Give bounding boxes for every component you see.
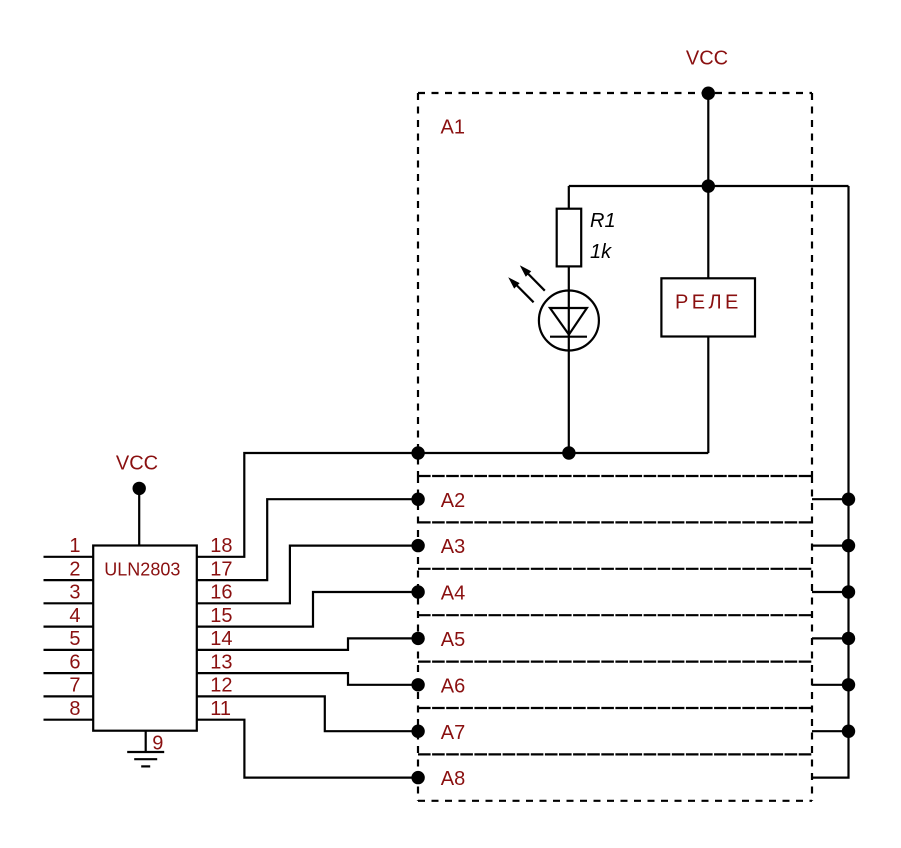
pin 6 wire: [44, 672, 94, 674]
wire A7 right stub: [812, 730, 849, 732]
LED arrow 1: [521, 267, 545, 291]
svg-text:15: 15: [210, 605, 232, 627]
node A7 entry dot: [411, 725, 424, 738]
wire A2 right stub: [812, 498, 849, 500]
pin 14 wire to A5: [197, 638, 418, 650]
svg-text:12: 12: [210, 675, 232, 697]
wire resistor bottom through LED to bus: [568, 266, 570, 453]
svg-text:A1: A1: [441, 117, 465, 139]
pin 9 wire: [145, 731, 147, 752]
block A6 dashed box: [418, 660, 812, 662]
svg-text:A8: A8: [441, 768, 465, 790]
pin 1 wire: [44, 556, 94, 558]
pin 15 wire to A4: [197, 592, 418, 627]
pin 7 wire: [44, 695, 94, 697]
svg-text:18: 18: [210, 535, 232, 557]
svg-text:2: 2: [69, 558, 80, 580]
svg-text:A7: A7: [441, 722, 465, 744]
wire horizontal bus y=186: [569, 185, 849, 187]
wire resistor top lead: [568, 186, 570, 209]
wire VCC to IC pin10: [138, 488, 140, 545]
LED arrow 2: [509, 278, 533, 302]
block A7 dashed box: [418, 707, 812, 709]
relay K1 box: [661, 278, 755, 336]
pin 12 wire to A7: [197, 696, 418, 731]
svg-text:5: 5: [69, 628, 80, 650]
wire A3 right stub: [812, 544, 849, 546]
ground: [127, 752, 164, 766]
svg-text:РЕЛЕ: РЕЛЕ: [675, 291, 742, 313]
node VCC top dot: [702, 87, 715, 100]
node A8 entry dot: [411, 771, 424, 784]
svg-text:A6: A6: [441, 675, 465, 697]
wire right vertical rail: [812, 186, 849, 778]
wire A5 right stub: [812, 637, 849, 639]
pin 2 wire: [44, 579, 94, 581]
pin 3 wire: [44, 602, 94, 604]
svg-text:A2: A2: [441, 490, 465, 512]
svg-text:8: 8: [69, 698, 80, 720]
wire A1 internal bottom bus: [418, 452, 708, 454]
svg-text:A4: A4: [441, 583, 465, 605]
resistor R1: [557, 209, 582, 267]
pin number labels right: [210, 535, 232, 720]
svg-text:7: 7: [69, 675, 80, 697]
svg-text:11: 11: [210, 698, 231, 720]
svg-text:1: 1: [69, 535, 80, 557]
block A2 dashed box: [418, 476, 812, 801]
block A5 dashed box: [418, 614, 812, 616]
junction A3 right: [842, 539, 855, 552]
LED VD1 circle: [539, 291, 599, 351]
node A1 entry dot: [411, 446, 424, 459]
svg-text:VCC: VCC: [686, 48, 728, 70]
node A4 entry dot: [411, 585, 424, 598]
wire A6 right stub: [812, 684, 849, 686]
pin 16 wire to A3: [197, 546, 418, 604]
junction A5 right: [842, 632, 855, 645]
pin 11 wire to A8: [197, 720, 418, 778]
svg-text:16: 16: [210, 582, 232, 604]
junction A6 right: [842, 678, 855, 691]
svg-text:R1: R1: [590, 210, 616, 232]
LED triangle: [550, 308, 587, 335]
LED cathode bar: [550, 336, 587, 338]
svg-text:6: 6: [69, 651, 80, 673]
junction LED/bus: [562, 446, 575, 459]
pin 17 wire to A2: [197, 499, 418, 580]
wire VCC top to junction: [707, 93, 709, 186]
pin 5 wire: [44, 649, 94, 651]
junction A7 right: [842, 725, 855, 738]
svg-text:4: 4: [69, 605, 80, 627]
wire A4 right stub: [812, 591, 849, 593]
pin 18 wire to A1: [197, 453, 418, 557]
svg-text:A5: A5: [441, 629, 465, 651]
pin 4 wire: [44, 625, 94, 627]
svg-text:1k: 1k: [590, 241, 612, 263]
wire relay top lead: [707, 186, 709, 278]
block A1 dashed box: [418, 93, 812, 476]
junction A4 right: [842, 585, 855, 598]
svg-text:VCC: VCC: [116, 453, 158, 475]
block A3 dashed box: [418, 521, 812, 523]
node A3 entry dot: [411, 539, 424, 552]
junction A2 right: [842, 493, 855, 506]
pin 13 wire to A6: [197, 673, 418, 685]
pin number labels left: [69, 535, 80, 720]
svg-text:A3: A3: [441, 536, 465, 558]
svg-text:13: 13: [210, 651, 232, 673]
node A5 entry dot: [411, 632, 424, 645]
block A8 dashed box: [418, 754, 812, 800]
svg-text:14: 14: [210, 628, 232, 650]
junction at 708,186: [702, 179, 715, 192]
IC U1 ULN2803 body: [93, 546, 197, 731]
svg-text:ULN2803: ULN2803: [104, 560, 180, 580]
pin 8 wire: [44, 719, 94, 721]
node A2 entry dot: [411, 493, 424, 506]
svg-text:3: 3: [69, 582, 80, 604]
node A6 entry dot: [411, 678, 424, 691]
block A4 dashed box: [418, 568, 812, 570]
node VCC IC dot: [133, 482, 146, 495]
svg-text:17: 17: [210, 558, 232, 580]
wire relay bottom lead: [707, 337, 709, 454]
